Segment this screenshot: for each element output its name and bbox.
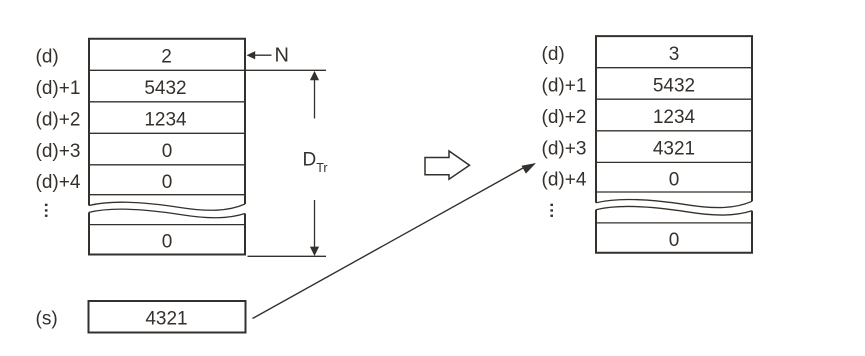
left table wave break upper line [89, 202, 245, 210]
right table outer box upper section [596, 36, 752, 203]
svg-text:0: 0 [162, 232, 173, 253]
svg-text:5432: 5432 [144, 78, 186, 99]
svg-text:3: 3 [669, 44, 680, 65]
left table row dividers [89, 70, 245, 194]
svg-text:(s): (s) [36, 308, 58, 329]
svg-text:(d)+1: (d)+1 [542, 76, 587, 97]
right table wave break lower line [596, 207, 752, 216]
N pointer arrowhead [247, 51, 256, 59]
svg-text:(d)+4: (d)+4 [36, 172, 81, 193]
svg-text:1234: 1234 [653, 107, 696, 128]
svg-text:0: 0 [669, 170, 680, 191]
svg-text:(d)+2: (d)+2 [542, 107, 587, 128]
dimension arrow up [310, 71, 319, 80]
svg-text:(d)+2: (d)+2 [36, 110, 81, 131]
svg-text:(d): (d) [542, 44, 565, 65]
svg-text:4321: 4321 [145, 309, 187, 330]
ellipsis right [550, 204, 553, 217]
hollow transition arrow [425, 151, 470, 179]
svg-text:5432: 5432 [653, 76, 695, 97]
svg-text:(d)+3: (d)+3 [542, 139, 587, 160]
left table outer box upper section [89, 39, 245, 206]
svg-text:(d)+1: (d)+1 [36, 78, 81, 99]
svg-text:0: 0 [162, 141, 173, 162]
source box [89, 301, 246, 333]
svg-text:0: 0 [162, 172, 173, 193]
svg-text:0: 0 [669, 230, 680, 251]
transfer arrowhead [522, 163, 537, 174]
svg-text:2: 2 [161, 47, 172, 68]
svg-text:1234: 1234 [144, 110, 187, 131]
svg-text:(d)+4: (d)+4 [542, 170, 587, 191]
right table row dividers [596, 68, 752, 192]
transfer diagonal line [253, 167, 526, 319]
svg-text:(d)+3: (d)+3 [36, 141, 81, 162]
right table lower section box [596, 210, 752, 253]
svg-text:N: N [275, 44, 289, 66]
svg-text:(d): (d) [36, 47, 59, 68]
dimension extension line top [246, 69, 326, 71]
ellipsis left [45, 204, 48, 217]
left table wave break lower line [89, 209, 245, 218]
dimension extension line bottom [248, 255, 327, 257]
dimension arrow down [310, 247, 319, 256]
right table wave break upper line [596, 200, 752, 208]
N pointer line [255, 54, 272, 56]
left table lower section box [89, 212, 245, 254]
svg-text:4321: 4321 [653, 139, 695, 160]
